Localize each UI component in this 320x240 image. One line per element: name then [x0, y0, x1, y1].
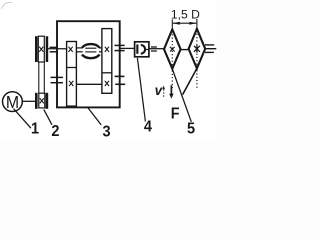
svg-text:3: 3 — [103, 123, 111, 141]
svg-text:1: 1 — [31, 120, 40, 138]
svg-text:2: 2 — [51, 122, 59, 140]
svg-text:4: 4 — [144, 118, 153, 136]
svg-text:M: M — [6, 92, 19, 112]
svg-text:5: 5 — [187, 120, 196, 138]
svg-text:F: F — [171, 105, 180, 123]
svg-text:1,5 D: 1,5 D — [171, 7, 200, 21]
